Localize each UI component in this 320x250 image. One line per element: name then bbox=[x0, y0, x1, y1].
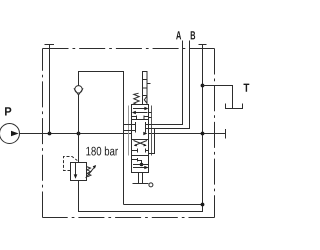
wire T branch to tank bbox=[203, 86, 233, 109]
check valve V seat bbox=[74, 88, 83, 95]
enclosure boundary top (dash-dot) bbox=[43, 48, 215, 50]
lever stem right bbox=[142, 173, 144, 184]
wire check valve up and over to valve bbox=[79, 72, 124, 205]
wire P line right of valve to plug bbox=[149, 133, 226, 135]
box4 stub with bar bbox=[132, 159, 138, 161]
enclosure boundary left (dash-dot) bbox=[42, 49, 44, 218]
relief valve V1 body bbox=[71, 163, 87, 181]
P label bbox=[5, 107, 11, 115]
plugged port cap top-right bbox=[199, 44, 207, 46]
box1 blocked bracket right bbox=[144, 116, 149, 118]
pump U1 circle bbox=[0, 124, 20, 144]
detent notch line 1 bbox=[143, 79, 148, 81]
wire A line bbox=[146, 41, 183, 125]
wire riser to plugged top port bbox=[49, 45, 51, 134]
valve position separator 2 bbox=[132, 139, 149, 141]
valve position separator 1 bbox=[132, 119, 149, 121]
box4 arrow right bbox=[133, 167, 148, 169]
detent notch line 3 bbox=[143, 95, 148, 97]
wire junction up to check valve bbox=[78, 95, 80, 134]
detent tick bbox=[147, 83, 151, 85]
valve top spring bbox=[134, 93, 139, 104]
lever foot bbox=[133, 183, 149, 185]
box1 blocked bracket left bbox=[132, 116, 137, 118]
box3 crossed arrow 2 bbox=[134, 141, 146, 146]
lever stem left bbox=[138, 173, 140, 184]
node riser junction bbox=[48, 132, 52, 136]
box3 crossed arrow 1 bbox=[135, 141, 147, 146]
node check/relief junction bbox=[77, 132, 81, 136]
valve body outline bbox=[132, 105, 149, 173]
wire B line bbox=[146, 41, 190, 129]
node P cross junction bbox=[201, 132, 205, 136]
detent notch line 2 bbox=[143, 87, 148, 89]
wire junction down to relief valve bbox=[78, 134, 80, 163]
T label bbox=[244, 84, 250, 92]
valve left housing rail bbox=[128, 106, 130, 156]
box4 elbow to junction bbox=[138, 161, 142, 165]
plugged port cap right bbox=[225, 129, 227, 139]
wire open-center stub lower bbox=[124, 130, 136, 132]
box1 arrow right bbox=[133, 108, 147, 110]
wire relief valve return bbox=[79, 181, 203, 212]
wire P supply line bbox=[20, 133, 132, 135]
relief valve spring bbox=[87, 167, 91, 177]
wire B branch down right side bbox=[149, 129, 155, 154]
wire long vertical T riser bbox=[202, 45, 204, 205]
box1 arrow left bbox=[133, 112, 147, 114]
enclosure boundary bottom (dash-dot) bbox=[43, 217, 215, 219]
A label bbox=[176, 31, 181, 39]
pump flow arrow bbox=[11, 131, 19, 137]
relief valve pilot line (dashed) bbox=[64, 157, 78, 171]
plugged port cap top-left bbox=[45, 44, 55, 46]
valve right housing rail bbox=[151, 106, 153, 156]
housing stub right 1 bbox=[149, 112, 152, 114]
B label bbox=[191, 31, 195, 39]
wire open-center stub upper bbox=[124, 124, 136, 126]
valve position separator 3 bbox=[132, 155, 149, 157]
housing stub right 2 bbox=[149, 117, 152, 119]
node T branch junction bbox=[201, 84, 205, 88]
lever knob bbox=[149, 183, 153, 187]
valve P arrow bbox=[143, 132, 147, 136]
relief valve adjust arrow bbox=[86, 166, 96, 178]
wire valve tank line bottom bbox=[124, 204, 203, 206]
box3 blocked stub right bbox=[146, 150, 149, 152]
label 180 bar bbox=[86, 146, 118, 155]
box3 blocked stub left bbox=[132, 150, 138, 152]
relief valve internal flow arrow bbox=[75, 163, 77, 176]
detent bar bbox=[143, 72, 148, 105]
box4 line with junction bbox=[133, 164, 149, 166]
node box4 junction bbox=[140, 163, 144, 167]
detent pointer notch bbox=[144, 96, 147, 103]
enclosure boundary right (dash-dot) bbox=[214, 49, 216, 218]
check valve ball bbox=[75, 86, 82, 93]
node bottom junction bbox=[201, 203, 205, 207]
tank symbol bbox=[226, 104, 243, 109]
